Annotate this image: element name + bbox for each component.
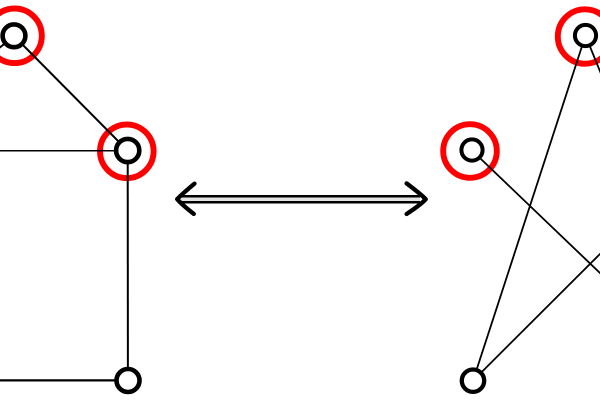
double-arrow shaft top line [181, 195, 421, 198]
edge B2 to off-canvas-right node [473, 242, 600, 381]
node A (left graph) [3, 24, 26, 47]
double-arrow left head [177, 184, 194, 214]
node B (left graph) [116, 139, 139, 162]
edge A to off-canvas-left node [0, 36, 14, 62]
highlight ring on node M (right graph, middle) [443, 124, 497, 178]
node M (right graph) [461, 139, 482, 160]
node T (right graph) [575, 25, 596, 46]
node B2 (right graph, bottom) [462, 370, 484, 392]
edge A-B [14, 36, 128, 151]
double-arrow shaft gray core [181, 197, 420, 201]
double-arrow shaft bottom line [181, 201, 421, 204]
double-arrow right head [407, 183, 426, 214]
node C (left graph, bottom) [117, 369, 140, 392]
highlight ring on node B (left graph, middle) [100, 125, 154, 179]
edge B-C (vertical) [127, 151, 129, 381]
edge from off-canvas-left node to C [0, 379, 128, 381]
edge M to off-canvas-right node [472, 150, 600, 285]
edge T to off-canvas-right node [586, 36, 600, 87]
highlight ring on node A (left graph, top-left) [0, 9, 42, 64]
edge from off-canvas-left node to B [0, 150, 128, 152]
highlight ring on node T (right graph, top-right) [558, 9, 600, 63]
edge T to bottom node B2 [473, 36, 586, 381]
